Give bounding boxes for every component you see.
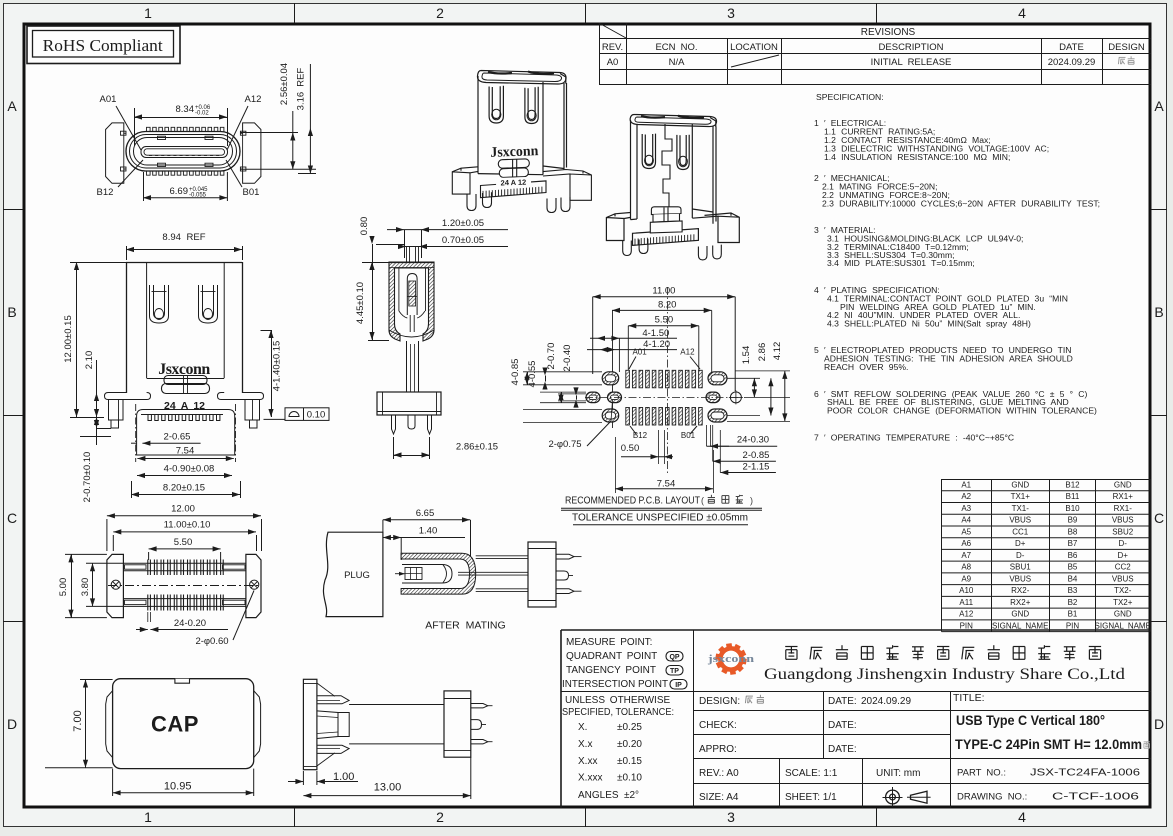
svg-text:B9: B9 — [1068, 516, 1078, 525]
svg-text:11.00: 11.00 — [652, 286, 675, 297]
svg-text:A12: A12 — [959, 610, 974, 619]
svg-text:A12: A12 — [245, 94, 262, 105]
svg-text:8.20±0.15: 8.20±0.15 — [163, 483, 205, 494]
svg-text:6.69: 6.69 — [170, 186, 189, 197]
svg-text:B11: B11 — [1066, 492, 1080, 501]
view4 slots — [150, 285, 169, 323]
svg-text:A3: A3 — [961, 504, 971, 513]
view6 pad rows — [626, 370, 630, 388]
svg-text:2-0.70±0.10: 2-0.70±0.10 — [82, 452, 93, 503]
svg-text:Jsxconn: Jsxconn — [490, 143, 539, 161]
svg-text:TITLE:: TITLE: — [953, 692, 985, 704]
svg-text:6.65: 6.65 — [416, 508, 435, 519]
svg-text:ANGLES: ANGLES — [578, 790, 619, 801]
svg-text:SIZE: A4: SIZE: A4 — [699, 792, 739, 803]
svg-text:VBUS: VBUS — [1009, 574, 1031, 583]
svg-text:SPECIFICATION:: SPECIFICATION: — [816, 92, 884, 102]
svg-text:PART NO.:: PART NO.: — [957, 768, 1006, 779]
iso view 1 — [477, 71, 566, 175]
svg-text:D+: D+ — [1015, 539, 1026, 548]
view10: cap side — [303, 679, 317, 769]
svg-text:X.xxx: X.xxx — [578, 773, 602, 784]
svg-text:1: 1 — [144, 809, 152, 825]
svg-text:(: ( — [701, 496, 704, 506]
svg-text:SHEET: 1/1: SHEET: 1/1 — [785, 792, 837, 803]
svg-text:USB Type C Vertical 180°: USB Type C Vertical 180° — [956, 713, 1105, 728]
svg-text:A2: A2 — [961, 492, 971, 501]
svg-text:24-0.20: 24-0.20 — [174, 618, 206, 629]
svg-text:8.94 REF: 8.94 REF — [162, 232, 205, 243]
svg-text:CAP: CAP — [151, 712, 199, 737]
svg-text:2-φ0.60: 2-φ0.60 — [195, 636, 228, 647]
view8 shell hatched — [401, 553, 476, 594]
svg-text:GND: GND — [1011, 610, 1029, 619]
view1 left wing — [106, 123, 126, 183]
view10 middle bracket — [317, 711, 338, 739]
svg-text:PIN: PIN — [960, 621, 974, 630]
view5 flange — [377, 392, 441, 415]
svg-text:7.00: 7.00 — [72, 710, 84, 731]
svg-text:±0.20: ±0.20 — [617, 739, 642, 750]
svg-text:1.4 INSULATION RESISTANCE:10: 1.4 INSULATION RESISTANCE:100 MΩ MIN; — [824, 152, 1010, 162]
view10 upper arm — [317, 696, 349, 704]
svg-text:A7: A7 — [961, 551, 971, 560]
svg-text:jsxconn: jsxconn — [707, 653, 754, 665]
svg-text:A: A — [1154, 98, 1164, 114]
svg-text:X.xx: X.xx — [578, 756, 597, 767]
svg-text:SBU2: SBU2 — [1112, 527, 1133, 536]
svg-text:5.50: 5.50 — [655, 315, 674, 326]
svg-text:QP: QP — [669, 654, 679, 661]
svg-text:TX2-: TX2- — [1114, 586, 1132, 595]
svg-text:SIGNAL NAME: SIGNAL NAME — [1095, 621, 1151, 630]
svg-text:DATE:: DATE: — [828, 744, 857, 755]
svg-text:B7: B7 — [1068, 539, 1078, 548]
svg-text:A11: A11 — [959, 598, 973, 607]
svg-text:A9: A9 — [961, 574, 971, 583]
svg-text:A01: A01 — [632, 348, 647, 357]
svg-text:CC1: CC1 — [1012, 527, 1029, 536]
svg-text:GND: GND — [1114, 480, 1132, 489]
svg-text:4.3 SHELL:PLATED Ni 50u” M: 4.3 SHELL:PLATED Ni 50u” MIN(Salt spray … — [827, 318, 1031, 328]
view4 body shell — [126, 262, 242, 264]
iso view 2 — [606, 115, 739, 246]
svg-text:DESIGN:: DESIGN: — [699, 696, 740, 707]
svg-text:N/A: N/A — [669, 57, 686, 68]
view1 shell — [126, 132, 240, 172]
svg-text:2-0.65: 2-0.65 — [164, 432, 191, 443]
svg-text:1: 1 — [144, 5, 152, 21]
svg-text:QUADRANT POINT: QUADRANT POINT — [566, 651, 657, 662]
svg-text:±0.15: ±0.15 — [617, 756, 642, 767]
svg-text:24 A 12: 24 A 12 — [164, 400, 205, 412]
svg-text:A5: A5 — [961, 527, 971, 536]
svg-text:0.70±0.05: 0.70±0.05 — [442, 235, 484, 246]
view7 pins — [148, 560, 223, 611]
svg-text:7.54: 7.54 — [176, 446, 195, 457]
svg-text:TX1+: TX1+ — [1011, 492, 1031, 501]
view4 flatness tolerance box — [264, 418, 286, 420]
view5 terminal — [398, 268, 400, 312]
svg-text:UNLESS OTHERWISE: UNLESS OTHERWISE — [565, 695, 670, 706]
svg-text:B4: B4 — [1068, 574, 1078, 583]
svg-text:2-1.15: 2-1.15 — [743, 462, 770, 473]
title block frame — [561, 629, 1151, 631]
svg-text:A01: A01 — [100, 94, 117, 105]
svg-text:VBUS: VBUS — [1112, 516, 1134, 525]
view9 ears — [106, 691, 113, 758]
svg-text:A6: A6 — [961, 539, 971, 548]
svg-text:CC2: CC2 — [1115, 563, 1132, 572]
svg-text:24 A 12: 24 A 12 — [500, 178, 526, 188]
svg-text:1.20±0.05: 1.20±0.05 — [442, 218, 484, 229]
svg-text:RoHS Compliant: RoHS Compliant — [43, 36, 163, 55]
svg-text:RECOMMENDED P.C.B. LAYOUT: RECOMMENDED P.C.B. LAYOUT — [565, 495, 700, 507]
REVISIONS table — [599, 38, 1151, 40]
svg-text:DESIGN: DESIGN — [1108, 42, 1145, 53]
svg-text:3.4 MID PLATE:SUS301 T=0.15: 3.4 MID PLATE:SUS301 T=0.15mm; — [827, 258, 975, 268]
svg-text:RX1-: RX1- — [1114, 504, 1133, 513]
svg-text:CHECK:: CHECK: — [699, 720, 737, 731]
svg-text:10.95: 10.95 — [164, 781, 192, 793]
view4 latch — [164, 376, 207, 385]
svg-text:B01: B01 — [681, 431, 696, 440]
svg-text:2-0.85: 2-0.85 — [743, 450, 770, 461]
svg-text:4-1.50: 4-1.50 — [642, 328, 669, 339]
svg-text:A12: A12 — [680, 348, 695, 357]
svg-text:C: C — [1154, 510, 1164, 526]
view6 centerlines — [585, 396, 745, 398]
svg-text:2.3 DURABILITY:10000 CYCLES;: 2.3 DURABILITY:10000 CYCLES;6~20N AFTER … — [822, 198, 1100, 208]
svg-text:A4: A4 — [961, 516, 971, 525]
view7 right block — [246, 554, 261, 617]
svg-text:B8: B8 — [1068, 527, 1078, 536]
svg-text:B01: B01 — [243, 187, 260, 198]
pin assignment table — [942, 479, 1151, 481]
svg-text:B10: B10 — [1065, 504, 1080, 513]
svg-text:C: C — [7, 510, 17, 526]
svg-text:0.80: 0.80 — [359, 217, 370, 236]
svg-text:GND: GND — [1114, 610, 1132, 619]
svg-text:4-0.85: 4-0.85 — [510, 359, 521, 386]
svg-text:TOLERANCE UNSPECIFIED ±0.05m: TOLERANCE UNSPECIFIED ±0.05mm — [572, 512, 748, 524]
svg-text:DESCRIPTION: DESCRIPTION — [879, 42, 944, 53]
svg-text:2.10: 2.10 — [84, 351, 95, 370]
svg-text:B: B — [7, 304, 16, 320]
svg-text:±2°: ±2° — [624, 790, 639, 801]
svg-text:SBU1: SBU1 — [1010, 563, 1031, 572]
svg-text:REV.: A0: REV.: A0 — [699, 768, 739, 779]
svg-text:DATE:: DATE: — [828, 720, 857, 731]
view10 right block — [444, 691, 471, 757]
svg-text:4-0.55: 4-0.55 — [527, 361, 538, 388]
view8 pcb block — [528, 542, 556, 607]
svg-text:B12: B12 — [1065, 480, 1080, 489]
svg-text:DRAWING NO.:: DRAWING NO.: — [957, 792, 1027, 803]
view7 rails — [123, 562, 245, 564]
svg-text:2-φ0.75: 2-φ0.75 — [548, 439, 581, 450]
svg-text:REVISIONS: REVISIONS — [861, 27, 916, 38]
svg-text:5.50: 5.50 — [174, 537, 193, 548]
svg-text:B3: B3 — [1068, 586, 1078, 595]
view4 feet — [109, 400, 124, 421]
svg-text:TP: TP — [670, 668, 679, 675]
svg-text:B2: B2 — [1068, 598, 1078, 607]
svg-text:DATE:: DATE: — [828, 696, 857, 707]
svg-text:TANGENCY POINT: TANGENCY POINT — [566, 665, 656, 676]
svg-text:4: 4 — [1018, 5, 1026, 21]
svg-text:A0: A0 — [607, 57, 619, 68]
view8 tongue — [402, 565, 452, 584]
svg-text:TX1-: TX1- — [1012, 504, 1030, 513]
svg-text:0.10: 0.10 — [307, 410, 326, 421]
svg-text:B: B — [1154, 304, 1163, 320]
svg-text:D-: D- — [1119, 539, 1128, 548]
svg-text:A10: A10 — [959, 586, 974, 595]
view10 pins — [471, 704, 488, 708]
view7 left block — [107, 554, 124, 617]
svg-text:INTERSECTION POINT: INTERSECTION POINT — [562, 679, 668, 690]
svg-text:AFTER MATING: AFTER MATING — [425, 620, 505, 632]
svg-text:±0.10: ±0.10 — [617, 773, 642, 784]
view8 pins — [556, 554, 574, 559]
svg-text:1.54: 1.54 — [741, 346, 752, 365]
zone ticks — [294, 3, 296, 23]
view6 bottom-right dims — [705, 425, 707, 446]
svg-text:ECN NO.: ECN NO. — [655, 42, 697, 53]
view8 rails — [476, 555, 528, 557]
svg-text:A8: A8 — [961, 563, 971, 572]
svg-text:0.50: 0.50 — [621, 443, 640, 454]
svg-text:12.00: 12.00 — [171, 504, 195, 515]
svg-text:B6: B6 — [1068, 551, 1078, 560]
svg-text:2: 2 — [436, 5, 444, 21]
svg-text:2024.09.29: 2024.09.29 — [861, 696, 911, 707]
svg-text:MEASURE POINT:: MEASURE POINT: — [566, 637, 652, 648]
svg-text:±0.25: ±0.25 — [617, 722, 642, 733]
svg-text:2.86±0.15: 2.86±0.15 — [456, 442, 498, 453]
svg-text:4.12: 4.12 — [772, 342, 783, 361]
RoHS Compliant box — [27, 26, 180, 64]
svg-text:IP: IP — [675, 682, 682, 689]
svg-text:D: D — [1154, 716, 1164, 732]
company name CJK — [785, 645, 1101, 660]
svg-text:RX1+: RX1+ — [1113, 492, 1134, 501]
view1 contact teeth — [147, 127, 224, 175]
view6 right oval pads — [708, 372, 727, 385]
svg-text:INITIAL RELEASE: INITIAL RELEASE — [871, 57, 952, 68]
svg-text:2.86: 2.86 — [757, 343, 768, 362]
svg-text:VBUS: VBUS — [1112, 574, 1134, 583]
svg-text:3.16 REF: 3.16 REF — [296, 67, 307, 110]
svg-text:3.80: 3.80 — [80, 578, 91, 597]
svg-text:-0.02: -0.02 — [195, 111, 209, 117]
svg-text:4.45±0.10: 4.45±0.10 — [355, 282, 366, 324]
view8 plug — [323, 532, 382, 616]
svg-text:): ) — [750, 496, 753, 506]
svg-text:8.34: 8.34 — [176, 104, 195, 115]
svg-text:2024.09.29: 2024.09.29 — [1048, 57, 1096, 68]
svg-text:A: A — [7, 98, 17, 114]
svg-text:SPECIFIED, TOLERANCE:: SPECIFIED, TOLERANCE: — [562, 707, 674, 718]
projection symbols — [886, 790, 900, 804]
svg-text:LOCATION: LOCATION — [730, 42, 778, 53]
view1 right wing — [240, 123, 261, 183]
svg-text:APPRO:: APPRO: — [699, 744, 737, 755]
svg-text:24-0.30: 24-0.30 — [737, 435, 769, 446]
svg-text:POOR COLOR CHANGE (DEFORMAT: POOR COLOR CHANGE (DEFORMATION WITHIN TO… — [827, 406, 1097, 416]
svg-text:DATE: DATE — [1059, 42, 1084, 53]
svg-text:X.: X. — [578, 722, 587, 733]
svg-text:4-1.20: 4-1.20 — [643, 339, 670, 350]
svg-text:SIGNAL NAME: SIGNAL NAME — [992, 621, 1048, 630]
svg-text:4-1.40±0.15: 4-1.40±0.15 — [272, 341, 283, 392]
svg-text:B12: B12 — [97, 187, 114, 198]
view6 left oval pads — [602, 372, 619, 385]
svg-text:7 ′ OPERATING TEMPERATURE : -: 7 ′ OPERATING TEMPERATURE : -40°C~+85°C — [814, 432, 1014, 442]
view5 shell — [389, 262, 434, 341]
svg-text:X.x: X.x — [578, 739, 592, 750]
svg-text:3: 3 — [727, 809, 735, 825]
svg-text:D: D — [7, 716, 17, 732]
svg-text:RX2-: RX2- — [1011, 586, 1030, 595]
svg-text:4-0.90±0.08: 4-0.90±0.08 — [164, 464, 215, 475]
svg-text:7.54: 7.54 — [657, 479, 676, 490]
view4 bottom housing — [137, 410, 235, 456]
view4 flange — [105, 393, 151, 400]
svg-text:SCALE: 1:1: SCALE: 1:1 — [785, 768, 838, 779]
svg-text:2-0.70: 2-0.70 — [546, 343, 557, 370]
svg-text:D-: D- — [1016, 551, 1025, 560]
view10 rails — [349, 704, 444, 706]
svg-text:GND: GND — [1011, 480, 1029, 489]
svg-text:A1: A1 — [961, 480, 971, 489]
svg-text:PLUG: PLUG — [344, 570, 370, 581]
svg-text:REV.: REV. — [602, 42, 623, 53]
company logo jsxconn — [707, 643, 754, 675]
svg-text:5.00: 5.00 — [58, 578, 69, 597]
svg-text:B1: B1 — [1068, 610, 1078, 619]
view9: cap — [113, 679, 254, 769]
svg-text:RX2+: RX2+ — [1010, 598, 1031, 607]
view7 screw marks — [111, 580, 120, 589]
svg-text:13.00: 13.00 — [374, 782, 402, 794]
svg-text:11.00±0.10: 11.00±0.10 — [164, 520, 211, 531]
svg-text:2: 2 — [436, 809, 444, 825]
svg-text:UNIT: mm: UNIT: mm — [876, 768, 920, 779]
svg-text:PIN: PIN — [1066, 621, 1080, 630]
view6 index hole — [730, 392, 741, 403]
view5 stem — [406, 341, 408, 392]
svg-text:TYPE-C 24Pin SMT H= 12.0mm: TYPE-C 24Pin SMT H= 12.0mm — [955, 737, 1142, 752]
svg-text:JSX-TC24FA-1006: JSX-TC24FA-1006 — [1030, 767, 1140, 779]
svg-text:D+: D+ — [1118, 551, 1129, 560]
svg-text:TX2+: TX2+ — [1113, 598, 1133, 607]
view5 legs — [392, 415, 396, 434]
svg-text:VBUS: VBUS — [1009, 516, 1031, 525]
svg-text:2.56±0.04: 2.56±0.04 — [279, 63, 290, 105]
svg-text:3: 3 — [727, 5, 735, 21]
svg-text:4: 4 — [1018, 809, 1026, 825]
svg-text:1.40: 1.40 — [419, 526, 438, 537]
svg-text:B5: B5 — [1068, 563, 1078, 572]
svg-text:Guangdong Jinshengxin Industry: Guangdong Jinshengxin Industry Share Co.… — [764, 666, 1125, 683]
svg-text:C-TCF-1006: C-TCF-1006 — [1052, 791, 1139, 803]
svg-text:2-0.40: 2-0.40 — [562, 345, 573, 372]
svg-text:REACH OVER 95%.: REACH OVER 95%. — [824, 362, 908, 372]
svg-text:12.00±0.15: 12.00±0.15 — [63, 315, 74, 362]
